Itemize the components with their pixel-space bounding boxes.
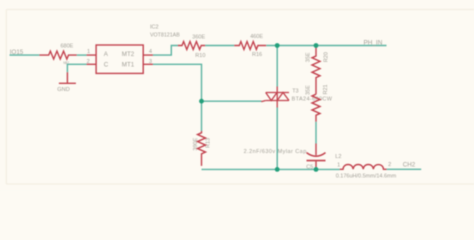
junction top rail / R20 <box>314 43 319 48</box>
svg-text:R21: R21 <box>323 84 329 94</box>
svg-text:2: 2 <box>87 59 90 65</box>
capacitor C5 <box>307 144 326 168</box>
wire top rail down to triac MT2 <box>276 46 278 87</box>
svg-text:C5: C5 <box>306 164 313 170</box>
inductor L2 <box>340 165 387 170</box>
svg-text:460E: 460E <box>250 34 263 40</box>
svg-text:360E: 360E <box>192 34 205 40</box>
junction bottom rail / triac <box>275 167 280 172</box>
junction top rail / triac <box>275 43 280 48</box>
svg-text:CH2: CH2 <box>403 161 416 168</box>
svg-text:IC2: IC2 <box>150 24 159 30</box>
svg-text:BTA24-600CW: BTA24-600CW <box>292 96 333 102</box>
wire pin 3 to left column <box>153 64 202 131</box>
svg-text:MT2: MT2 <box>122 51 135 58</box>
svg-text:2: 2 <box>388 162 391 168</box>
wire triac MT1 down to bottom rail <box>276 108 278 170</box>
svg-text:1: 1 <box>337 163 340 169</box>
resistor R21 <box>312 94 320 122</box>
svg-text:680E: 680E <box>61 44 74 50</box>
svg-text:PH_IN: PH_IN <box>364 39 383 46</box>
svg-text:R20: R20 <box>324 52 330 62</box>
svg-text:4: 4 <box>149 49 152 55</box>
wire pin 2 to GND bend <box>67 64 86 72</box>
svg-text:R16: R16 <box>252 52 262 58</box>
svg-text:2.2nF/630v Mylar Cap: 2.2nF/630v Mylar Cap <box>244 149 307 155</box>
wire gate row to triac <box>202 100 262 102</box>
wire R21 to C5 <box>315 122 317 144</box>
wire L2 to CH2 <box>387 168 422 170</box>
svg-text:L2: L2 <box>335 154 341 160</box>
schematic frame <box>6 10 474 185</box>
svg-text:VOT8121AB: VOT8121AB <box>150 33 180 39</box>
resistor 680E <box>39 51 76 59</box>
junction bottom rail / C5 <box>314 167 319 172</box>
svg-text:T3: T3 <box>292 89 298 95</box>
svg-text:C: C <box>104 61 109 68</box>
wire top rail to PH_IN <box>266 45 386 47</box>
transistor Q1 : triac T3 <box>261 87 289 108</box>
IC2 pin leads <box>87 55 153 64</box>
resistor R13 <box>198 131 206 166</box>
svg-text:GND: GND <box>57 87 69 93</box>
svg-text:N$7: N$7 <box>63 61 69 65</box>
wire R10 to R16 <box>205 45 234 47</box>
resistor R10 <box>178 42 205 50</box>
resistor R20 <box>312 46 320 95</box>
svg-text:R10: R10 <box>195 53 205 59</box>
op-amp U1 : optocoupler IC2 box <box>96 45 143 73</box>
svg-text:35E: 35E <box>305 52 311 62</box>
svg-text:3: 3 <box>149 59 152 65</box>
svg-text:35E: 35E <box>305 85 311 95</box>
wire bottom rail <box>202 168 340 170</box>
svg-text:0.176uH/0.5mm/14.6mm: 0.176uH/0.5mm/14.6mm <box>336 173 397 179</box>
svg-text:1: 1 <box>87 49 90 55</box>
wire pin 4 up to top rail <box>153 46 178 56</box>
wire R 680E to pin 1 <box>77 54 87 56</box>
ground <box>59 72 76 83</box>
junction gate row <box>199 99 204 104</box>
resistor R16 <box>234 42 266 50</box>
wire IO15 to R 680E <box>10 54 40 56</box>
svg-text:MT1: MT1 <box>122 61 135 68</box>
svg-text:R13: R13 <box>205 138 211 148</box>
